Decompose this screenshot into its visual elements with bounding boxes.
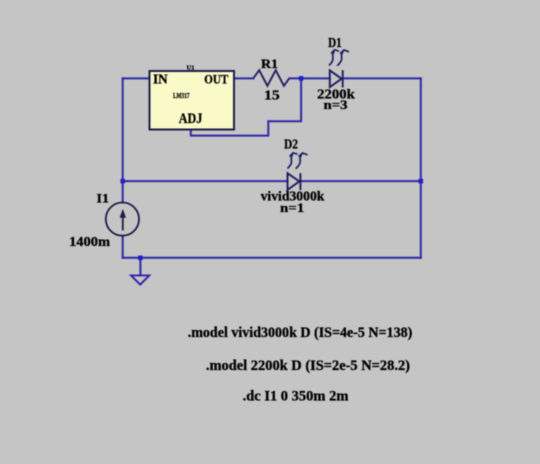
svg-text:ADJ: ADJ xyxy=(179,111,203,127)
wire IN lead top-left xyxy=(123,77,150,79)
wire ADJ network xyxy=(191,78,301,135)
svg-text:OUT: OUT xyxy=(204,71,228,86)
node junction at ground tap xyxy=(138,256,143,261)
D1 LED arrows xyxy=(330,50,349,66)
current source I1 xyxy=(106,203,139,236)
node junction below R1 right xyxy=(299,76,304,81)
svg-text:IN: IN xyxy=(153,71,168,86)
svg-text:15: 15 xyxy=(264,88,280,103)
wire bottom horizontal xyxy=(123,257,421,259)
wire OUT lead to resistor xyxy=(234,77,254,79)
svg-text:.model vivid3000k D (IS=4e-5 N: .model vivid3000k D (IS=4e-5 N=138) xyxy=(188,325,413,341)
resistor R1 xyxy=(254,70,290,86)
wire left vertical upper xyxy=(122,78,124,202)
wire ground stub xyxy=(139,258,141,276)
op-amp U1 (LM317 regulator box) xyxy=(150,71,235,130)
wire resistor to D1 anode xyxy=(290,77,330,79)
svg-text:U1: U1 xyxy=(187,65,195,72)
svg-text:n=1: n=1 xyxy=(280,201,304,215)
svg-text:LM317: LM317 xyxy=(173,91,190,100)
wire D1 cathode to right corner xyxy=(343,77,421,79)
wire left vertical lower xyxy=(122,236,124,258)
svg-text:1400m: 1400m xyxy=(69,234,111,249)
svg-text:I1: I1 xyxy=(97,191,110,206)
svg-text:D1: D1 xyxy=(328,36,342,51)
svg-text:D2: D2 xyxy=(284,138,298,153)
node junction at left mid xyxy=(120,179,125,184)
svg-text:n=3: n=3 xyxy=(324,98,348,112)
diode D1 xyxy=(330,70,343,87)
wire D2 cathode to right junction xyxy=(300,180,420,182)
wire right vertical xyxy=(420,78,422,257)
wire mid-left to D2 anode xyxy=(123,180,288,182)
D2 LED arrows xyxy=(288,153,307,169)
diode D2 xyxy=(288,173,301,190)
svg-text:.dc I1 0 350m 2m: .dc I1 0 350m 2m xyxy=(243,388,349,404)
node junction at right mid xyxy=(419,179,424,184)
svg-text:R1: R1 xyxy=(261,56,278,71)
svg-text:.model 2200k D (IS=2e-5 N=28.2: .model 2200k D (IS=2e-5 N=28.2) xyxy=(206,358,410,374)
ground xyxy=(131,275,149,284)
